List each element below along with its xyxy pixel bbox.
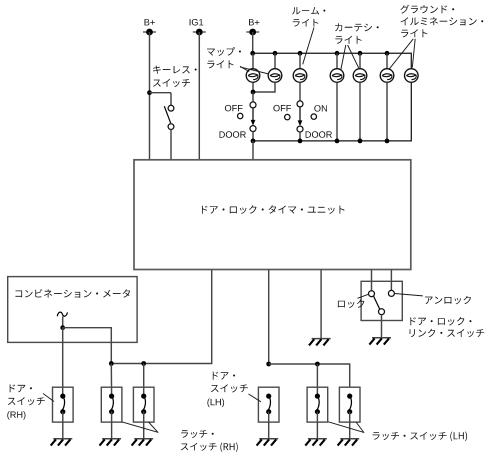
- wire lamp supply top bus: [253, 53, 412, 68]
- junction dots on top bus: [250, 51, 389, 56]
- wire latch LH1 ground: [316, 412, 318, 439]
- leader unlock: [395, 294, 423, 296]
- leader door switch LH: [249, 394, 261, 402]
- wire meter to door switch RH: [62, 328, 64, 396]
- unlock contact: [388, 290, 394, 296]
- sw1 DOOR contact: [250, 126, 256, 132]
- wire bottom bus to unit: [252, 141, 254, 160]
- sw1 OFF contact: [238, 113, 243, 118]
- label door lock timer unit: [202, 205, 345, 214]
- leader lock: [358, 294, 369, 298]
- terminal IG1: [190, 19, 206, 35]
- wire B+ left down to unit: [149, 32, 151, 160]
- sw1 common contact: [250, 102, 256, 108]
- latch switch LH 2 box: [339, 387, 360, 422]
- label sw1 DOOR: [220, 131, 246, 138]
- wire lamp return bottom bus: [253, 82, 411, 141]
- wire latch RH2 ground: [143, 412, 145, 439]
- leader map light: [240, 66, 269, 74]
- wire latch bus down 1: [110, 364, 112, 397]
- label sw2 ON: [314, 105, 327, 112]
- lamp ground illumination light 1: [380, 53, 394, 82]
- door switch RH box: [53, 387, 74, 422]
- wire latch bus down 2: [143, 364, 145, 397]
- sw2 DOOR contact: [297, 126, 303, 132]
- label door switch LH: [207, 372, 247, 407]
- wire keyless branch: [150, 93, 172, 106]
- lamp map light 2: [268, 53, 282, 82]
- sw2 ON contact: [311, 114, 316, 119]
- wire unit to unlock contact: [390, 270, 392, 291]
- junction dots on bottom bus: [251, 139, 390, 144]
- wire unit direct ground: [320, 270, 322, 339]
- label combination meter: [15, 289, 130, 298]
- ground latch RH2: [132, 439, 154, 446]
- wire squiggle stub: [62, 317, 64, 328]
- keyless switch lever: [164, 106, 170, 123]
- label door lock link switch: [410, 317, 485, 337]
- wire latch LH1 down: [316, 364, 318, 396]
- label door switch RH: [7, 384, 44, 419]
- leader latch switch RH: [122, 422, 158, 433]
- ground latch LH1: [305, 439, 327, 446]
- label room light: [292, 7, 325, 27]
- wire room lamp to switch: [299, 82, 301, 101]
- sw2 common contact: [297, 101, 303, 107]
- wire map lamps to switch: [251, 82, 275, 94]
- lamp map light 1: [246, 53, 260, 82]
- sw1 moving contact arrow: [251, 108, 256, 126]
- leader courtesy light: [341, 45, 359, 70]
- latch switch RH 1 box: [101, 387, 122, 422]
- wire IG1 down to unit: [198, 32, 200, 160]
- node latch LH bus mid: [315, 362, 320, 367]
- label sw1 OFF: [225, 105, 243, 112]
- lamp ground illumination light 2: [405, 69, 419, 83]
- label sw2 OFF: [273, 105, 291, 112]
- node latch bus left: [109, 361, 114, 366]
- lamp room light: [293, 53, 307, 82]
- keyless switch contacts: [168, 105, 174, 129]
- wire door LH ground: [268, 412, 270, 439]
- wire sw1 to bottom bus: [252, 132, 254, 141]
- label lock: [338, 300, 365, 309]
- node keyless tap on B+ wire: [147, 90, 152, 95]
- label unlock: [425, 296, 471, 305]
- combination meter box: [8, 277, 137, 343]
- wire ground illum lamp 1 down: [386, 82, 388, 141]
- label sw2 DOOR: [306, 131, 332, 138]
- link switch lever: [374, 296, 380, 309]
- wire unit to door switch LH: [268, 270, 270, 365]
- lock contact: [369, 291, 375, 297]
- leader room light: [303, 28, 314, 65]
- wire latch RH1 ground: [111, 412, 113, 439]
- terminal B+ (battery, right): [246, 19, 259, 35]
- wire unit to lock contact: [371, 270, 373, 291]
- label latch switch LH: [373, 432, 468, 442]
- wire link switch to ground: [381, 315, 383, 338]
- wire sw2 to bottom bus: [299, 132, 301, 141]
- wire latch LH2 ground: [349, 412, 351, 439]
- latch switch LH 1 box: [307, 387, 328, 422]
- wire courtesy lamp 1 down: [336, 82, 338, 141]
- terminal B+ (battery, left): [143, 19, 156, 35]
- lamp courtesy light 1: [330, 53, 344, 82]
- sw2 OFF contact: [285, 114, 290, 119]
- link switch common contact: [379, 309, 385, 315]
- unit box door lock timer: [134, 160, 411, 270]
- wire door switch RH to ground: [62, 412, 64, 439]
- sw2 moving contact arrow: [298, 107, 303, 126]
- latch switch RH 2 box: [133, 387, 154, 422]
- lamp courtesy light 2: [353, 53, 367, 82]
- leader latch switch LH: [328, 422, 364, 433]
- leader door switch RH: [43, 394, 54, 402]
- wire B+ right down to lamp bus: [252, 32, 254, 53]
- node meter junction: [60, 325, 65, 330]
- wire into sw1 common: [252, 92, 254, 102]
- leader ground illumination light: [389, 39, 416, 70]
- label courtesy light: [335, 23, 379, 43]
- door lock link switch box: [361, 281, 402, 320]
- door switch LH box: [258, 387, 279, 422]
- node door switch LH junction: [266, 362, 271, 367]
- wire courtesy lamp 2 down: [359, 82, 361, 141]
- wire unit to meter bus: [111, 270, 211, 364]
- label map light: [207, 47, 241, 68]
- label ground illumination light: [400, 5, 483, 38]
- label keyless switch: [153, 66, 197, 88]
- ground door switch LH: [257, 439, 279, 446]
- ground link switch: [369, 338, 391, 345]
- wire latch LH bus: [269, 364, 350, 387]
- ground door switch RH: [51, 439, 73, 446]
- meter coil squiggle: [57, 312, 67, 316]
- node latch bus mid: [141, 361, 146, 366]
- label latch switch RH: [181, 430, 238, 452]
- wire meter to latch bus: [63, 328, 112, 364]
- ground latch LH2: [338, 439, 360, 446]
- ground latch RH1: [100, 439, 122, 446]
- wire keyless to unit: [170, 130, 172, 160]
- ground unit: [309, 339, 331, 346]
